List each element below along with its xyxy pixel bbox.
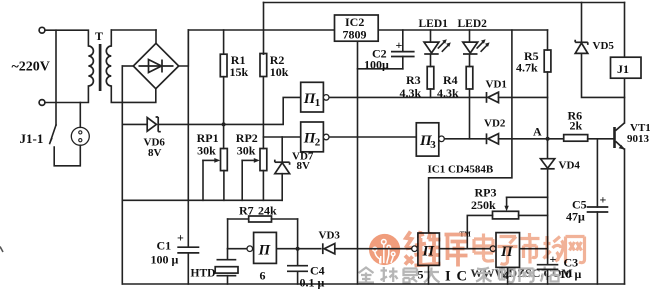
svg-text:R7: R7 [239, 203, 254, 217]
svg-text:47μ: 47μ [566, 210, 585, 224]
svg-text:IC1 CD4584B: IC1 CD4584B [428, 163, 494, 175]
svg-text:3: 3 [430, 139, 436, 151]
svg-text:VD5: VD5 [593, 40, 615, 52]
svg-text:LED2: LED2 [458, 18, 488, 30]
svg-text:VD1: VD1 [486, 79, 507, 91]
svg-text:+: + [600, 193, 607, 207]
svg-text:8V: 8V [148, 147, 162, 159]
svg-text:I: I [445, 269, 451, 285]
svg-text:8V: 8V [297, 160, 311, 172]
svg-text:C: C [457, 269, 467, 285]
svg-text:T: T [95, 29, 103, 43]
svg-text:A: A [533, 125, 542, 139]
svg-text:+: + [550, 252, 557, 266]
svg-text:HTD: HTD [191, 268, 216, 280]
svg-text:15k: 15k [230, 65, 249, 79]
svg-text:250k: 250k [471, 198, 496, 212]
svg-text:30k: 30k [237, 144, 256, 158]
svg-text:LED1: LED1 [419, 18, 449, 30]
svg-text:J1: J1 [617, 62, 629, 76]
svg-text:4.3k: 4.3k [400, 86, 422, 100]
svg-text:4.3k: 4.3k [437, 86, 459, 100]
svg-text:J1-1: J1-1 [20, 131, 44, 146]
svg-text:+: + [177, 231, 184, 245]
svg-text:100μ: 100μ [364, 58, 389, 72]
svg-text:6: 6 [260, 269, 266, 283]
svg-text:VD2: VD2 [484, 118, 506, 130]
svg-text:10k: 10k [270, 65, 289, 79]
svg-text:1: 1 [315, 97, 321, 109]
svg-text:9013: 9013 [627, 133, 650, 145]
svg-text:VD4: VD4 [559, 160, 581, 172]
svg-text:П: П [258, 243, 272, 259]
svg-text:VD3: VD3 [319, 230, 341, 242]
svg-text:C1: C1 [157, 239, 172, 253]
svg-text:7809: 7809 [343, 28, 367, 42]
svg-text:2k: 2k [570, 119, 583, 133]
svg-text:0.1 μ: 0.1 μ [300, 276, 325, 289]
svg-text:5: 5 [418, 268, 424, 282]
svg-text:30k: 30k [197, 144, 216, 158]
svg-text:100 μ: 100 μ [151, 253, 179, 267]
svg-text:+: + [396, 38, 403, 52]
svg-text:24k: 24k [258, 203, 277, 217]
svg-text:~220V: ~220V [12, 60, 50, 75]
svg-text:4.7k: 4.7k [516, 61, 538, 75]
svg-text:2: 2 [315, 137, 321, 149]
